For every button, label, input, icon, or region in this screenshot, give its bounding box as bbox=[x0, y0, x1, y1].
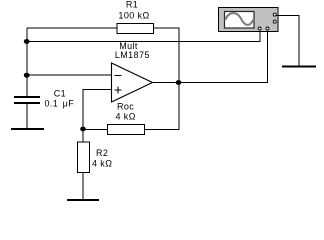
wire R2 top lead bbox=[82, 129, 84, 142]
resistor R2 bbox=[78, 142, 90, 173]
node junction dot output bbox=[176, 80, 182, 85]
wire C1 to ground bbox=[26, 103, 28, 128]
svg-text:C1: C1 bbox=[54, 89, 66, 99]
wire R1 right lead and vertical down to Roc corner bbox=[154, 28, 180, 130]
resistor R1 bbox=[117, 24, 154, 34]
wire R2 bottom lead bbox=[82, 173, 84, 201]
oscilloscope terminal right top bbox=[273, 13, 276, 16]
capacitor C1 bottom plate bbox=[14, 102, 40, 104]
node junction dot inverting input bbox=[24, 73, 30, 78]
wire R1 left lead bbox=[27, 27, 117, 29]
oscilloscope sine trace bbox=[225, 13, 253, 25]
ground left bbox=[11, 128, 44, 130]
svg-text:4 kΩ: 4 kΩ bbox=[92, 159, 112, 169]
op-amp plus input symbol bbox=[115, 87, 122, 94]
wire scope channel A bbox=[27, 30, 260, 42]
op-amp U1 LM1875 triangle bbox=[112, 63, 153, 102]
svg-text:Roc: Roc bbox=[117, 102, 134, 112]
svg-text:R1: R1 bbox=[126, 0, 138, 10]
oscilloscope terminal bottom left bbox=[258, 27, 261, 30]
svg-text:0.1 μF: 0.1 μF bbox=[45, 99, 75, 109]
svg-text:R2: R2 bbox=[96, 148, 108, 158]
wire output to scope channel B bbox=[153, 30, 268, 83]
wire Roc left lead bbox=[83, 129, 108, 131]
oscilloscope terminal right bottom bbox=[273, 20, 276, 23]
ground bottom bbox=[67, 199, 99, 201]
wire inverting input bbox=[27, 74, 112, 76]
oscilloscope screen bbox=[225, 12, 255, 29]
node junction dot Roc-R2 bbox=[80, 127, 86, 132]
oscilloscope terminal bottom right bbox=[266, 27, 269, 30]
svg-text:100 kΩ: 100 kΩ bbox=[118, 11, 149, 21]
op-amp minus input symbol bbox=[115, 75, 122, 77]
wire Roc right lead bbox=[145, 129, 180, 131]
node junction dot input-scope bbox=[24, 39, 30, 44]
svg-text:LM1875: LM1875 bbox=[115, 50, 150, 60]
resistor Roc bbox=[108, 125, 145, 135]
wire left rail vertical bbox=[26, 28, 28, 96]
wire scope to ground bbox=[277, 16, 300, 67]
ground right bbox=[282, 65, 316, 67]
oscilloscope XSC1 body bbox=[219, 8, 279, 32]
wire non-inverting input bbox=[83, 90, 112, 130]
capacitor C1 top plate bbox=[14, 96, 40, 98]
svg-text:4 kΩ: 4 kΩ bbox=[116, 112, 136, 122]
